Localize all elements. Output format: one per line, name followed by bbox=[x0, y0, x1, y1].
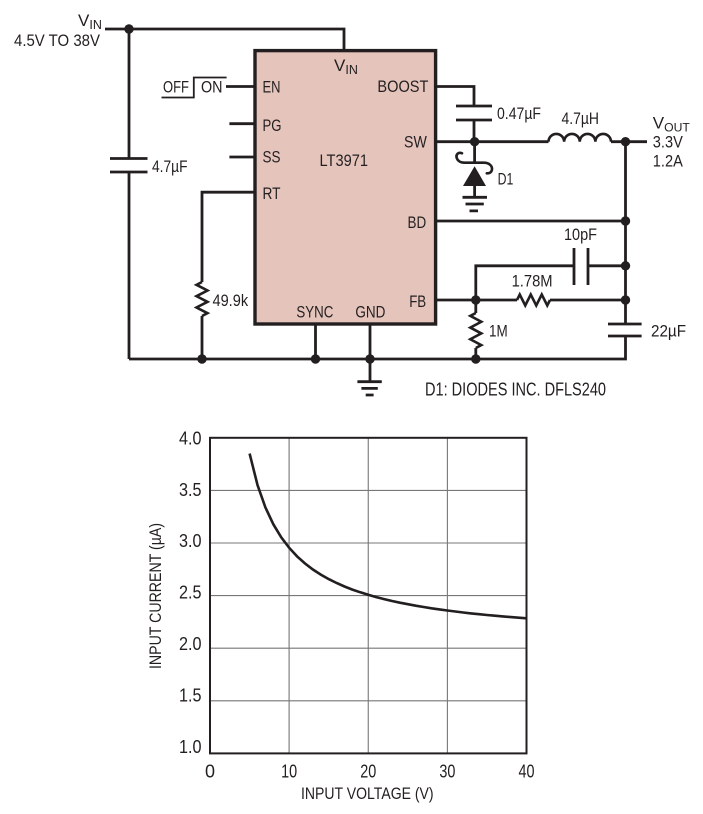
svg-text:2.0: 2.0 bbox=[179, 634, 202, 654]
junction dot VIN node bbox=[124, 24, 133, 33]
junction dot GND/rail bbox=[365, 354, 374, 363]
svg-text:OFF: OFF bbox=[163, 78, 189, 97]
svg-text:0: 0 bbox=[205, 762, 215, 782]
node VOUT labels bbox=[653, 113, 691, 170]
chart x-axis tick labels bbox=[205, 762, 535, 782]
resistor R3 1M bbox=[470, 300, 507, 348]
inductor L1 4.7uH bbox=[549, 109, 612, 142]
svg-text:SW: SW bbox=[404, 133, 427, 152]
junction dot R1/rail bbox=[197, 354, 206, 363]
svg-text:FB: FB bbox=[409, 292, 426, 311]
svg-text:1.0: 1.0 bbox=[179, 737, 202, 757]
svg-text:10: 10 bbox=[281, 762, 297, 782]
wire C3 to VOUT line bbox=[588, 264, 626, 267]
junction dot C3/VOUT bbox=[621, 261, 630, 270]
junction dot SYNC/rail bbox=[311, 354, 320, 363]
capacitor C2 0.47uF bbox=[456, 104, 541, 123]
wire FB node up branch to C3 bbox=[476, 266, 574, 300]
svg-text:0.47µF: 0.47µF bbox=[497, 104, 541, 123]
svg-text:4.5V TO 38V: 4.5V TO 38V bbox=[14, 31, 101, 50]
junction dot R2/VOUT bbox=[621, 295, 630, 304]
wire SW pin to inductor bbox=[434, 140, 549, 143]
resistor R1 49.9k bbox=[197, 282, 249, 316]
svg-text:1.78M: 1.78M bbox=[512, 272, 553, 291]
svg-text:INPUT CURRENT (µA): INPUT CURRENT (µA) bbox=[146, 523, 165, 669]
svg-text:D1: D1 bbox=[498, 170, 514, 189]
chart y-axis tick labels bbox=[179, 428, 202, 757]
svg-text:2.5: 2.5 bbox=[179, 583, 202, 603]
ground symbol main bbox=[357, 382, 381, 395]
svg-text:INPUT VOLTAGE (V): INPUT VOLTAGE (V) bbox=[301, 784, 434, 803]
svg-text:40: 40 bbox=[519, 762, 535, 782]
wire C2 to SW node bbox=[473, 120, 476, 142]
capacitor C3 10pF bbox=[564, 225, 597, 285]
svg-text:SS: SS bbox=[263, 148, 281, 167]
svg-text:BD: BD bbox=[408, 213, 427, 232]
svg-text:EN: EN bbox=[263, 78, 281, 97]
switch OFF/ON level symbol bbox=[162, 78, 227, 98]
capacitor C1 4.7uF bbox=[110, 157, 188, 176]
svg-text:4.7µH: 4.7µH bbox=[562, 109, 600, 128]
wire ground rail bbox=[129, 336, 626, 359]
junction dot VOUT node bbox=[621, 137, 630, 146]
wire VOUT vertical line down to C4 bbox=[624, 142, 627, 324]
svg-text:1M: 1M bbox=[489, 322, 508, 341]
wire R3 to ground rail bbox=[474, 348, 477, 359]
junction dot R3/rail bbox=[471, 354, 480, 363]
svg-text:4.0: 4.0 bbox=[179, 428, 202, 448]
svg-text:1.5: 1.5 bbox=[179, 686, 202, 706]
svg-text:PG: PG bbox=[263, 116, 282, 135]
wire R1 to ground rail bbox=[201, 316, 204, 359]
svg-text:LT3971: LT3971 bbox=[320, 151, 369, 170]
wire VIN node down to C1 bbox=[128, 29, 131, 159]
svg-text:SYNC: SYNC bbox=[296, 302, 333, 321]
resistor R2 1.78M bbox=[512, 272, 553, 306]
svg-text:ON: ON bbox=[201, 78, 223, 97]
svg-text:BOOST: BOOST bbox=[377, 77, 428, 96]
wire SS pin stub bbox=[229, 156, 256, 159]
junction dot FB node bbox=[471, 295, 480, 304]
op-amp U1 LT3971 IC body bbox=[255, 51, 436, 324]
wire FB pin bbox=[434, 299, 517, 302]
wire BOOST pin to C2 bbox=[434, 87, 474, 107]
svg-text:20: 20 bbox=[360, 762, 376, 782]
svg-text:22µF: 22µF bbox=[651, 322, 686, 341]
wire GND pin to rail bbox=[369, 323, 372, 382]
svg-text:RT: RT bbox=[263, 184, 281, 203]
svg-text:1.2A: 1.2A bbox=[653, 151, 684, 170]
chart frame bbox=[210, 438, 527, 754]
node VIN input label bbox=[14, 11, 102, 50]
wire RT pin to R1 bbox=[202, 192, 256, 282]
wire SYNC pin to rail bbox=[314, 323, 317, 359]
wire C1 bottom down to ground rail bbox=[128, 172, 131, 359]
svg-text:3.0: 3.0 bbox=[179, 531, 202, 551]
ground symbol under D1 bbox=[463, 197, 488, 211]
wire PG pin stub bbox=[229, 122, 256, 125]
wire inductor to VOUT bbox=[611, 140, 647, 143]
svg-text:D1: DIODES INC. DFLS240: D1: DIODES INC. DFLS240 bbox=[425, 380, 606, 400]
wire R2 to VOUT line bbox=[550, 299, 626, 302]
capacitor C4 22uF bbox=[608, 322, 686, 341]
svg-text:30: 30 bbox=[439, 762, 455, 782]
junction dot SW node bbox=[470, 137, 479, 146]
chart curve input current bbox=[250, 454, 527, 619]
wire SW node down to D1 bbox=[473, 142, 476, 163]
diode D1 schottky bbox=[456, 153, 513, 197]
junction dot BD/VOUT bbox=[621, 216, 630, 225]
wire VIN top rail to IC VIN pin bbox=[105, 29, 344, 50]
wire EN pin bbox=[226, 85, 256, 88]
svg-text:49.9k: 49.9k bbox=[213, 291, 249, 310]
svg-text:4.7µF: 4.7µF bbox=[152, 157, 188, 176]
svg-text:VOUT: VOUT bbox=[653, 113, 691, 134]
svg-text:3.5: 3.5 bbox=[179, 480, 202, 500]
chart gridlines bbox=[210, 438, 527, 754]
wire BD pin bbox=[434, 220, 626, 223]
svg-text:VIN: VIN bbox=[78, 11, 102, 32]
svg-text:3.3V: 3.3V bbox=[653, 133, 684, 152]
svg-text:10pF: 10pF bbox=[564, 225, 597, 244]
svg-text:GND: GND bbox=[355, 302, 385, 321]
